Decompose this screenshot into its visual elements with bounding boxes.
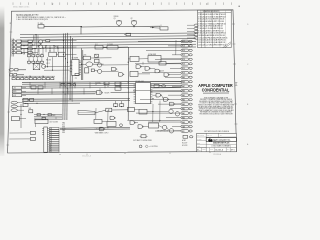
vertical wire: [107, 110, 109, 121]
wire band: [34, 113, 62, 115]
svg-text:8 344-0061-B BBU CUSTOM PLCC: 8 344-0061-B BBU CUSTOM PLCC U8: [198, 30, 223, 32]
wire: [144, 125, 149, 127]
title block top row: [206, 136, 236, 138]
gate U7B: [145, 67, 150, 71]
wire: [102, 120, 107, 122]
wire: [174, 130, 181, 132]
buffer gate U4C: [86, 62, 93, 67]
resistor R25: [67, 83, 71, 86]
IC U6: [130, 56, 139, 61]
transistor Q2: [132, 20, 137, 25]
transistor Q4: [39, 45, 43, 49]
polarity symbol: [145, 145, 148, 148]
net RAS connector: [148, 121, 181, 123]
resistor row R13-R22: [12, 78, 15, 80]
svg-text:* SEE SHEET 2 OF 2: * SEE SHEET 2 OF 2: [94, 133, 109, 135]
wire: [22, 98, 130, 101]
speck: [239, 6, 240, 7]
IC U26: [95, 59, 99, 63]
wire bus under resistor row: [12, 75, 55, 77]
delay line DL2: [107, 45, 118, 49]
IC U8: [130, 71, 138, 76]
resistor R34: [42, 117, 45, 119]
svg-text:D6: D6: [50, 140, 52, 142]
vertical wire: [175, 40, 177, 55]
svg-text:SCC: SCC: [62, 124, 65, 126]
sheet border frame: [8, 10, 237, 153]
svg-text:MACINTOSH PLUS: MACINTOSH PLUS: [213, 142, 230, 145]
wire: [152, 94, 156, 96]
apple computer inc logo bar: [206, 138, 236, 142]
gate U18B: [138, 125, 143, 129]
transistor Q3: [39, 40, 43, 44]
svg-text:R36 470: R36 470: [46, 59, 51, 61]
svg-text:-12V: -12V: [13, 95, 16, 97]
wire: [170, 73, 182, 75]
address bus wires: [22, 83, 182, 84]
svg-text:+5V: +5V: [13, 87, 16, 89]
gate U4A: [112, 67, 117, 71]
net RD4 connector: [172, 54, 181, 56]
svg-text:U13 74LS393: U13 74LS393: [49, 121, 58, 123]
IC U20A: [31, 86, 36, 89]
svg-text:REV: REV: [227, 149, 230, 151]
vertical wire: [82, 50, 84, 80]
svg-text:D3: D3: [50, 134, 52, 136]
wire: [166, 62, 181, 64]
net RA4 connector: [140, 99, 181, 101]
pin 3 D2: [47, 132, 49, 134]
svg-text:ENG: ENG: [197, 142, 200, 144]
wire: [136, 122, 139, 124]
IC U22B: [30, 98, 34, 101]
IC U11: [127, 107, 134, 111]
svg-text:7 341-0341-C 74LS161 BIN CNTR: 7 341-0341-C 74LS161 BIN CNTR U4: [198, 28, 223, 30]
IC U19: [149, 123, 159, 128]
svg-text:050-0601-A: 050-0601-A: [82, 155, 92, 158]
gate U7D: [164, 73, 169, 77]
gate U10B: [164, 98, 169, 102]
wire: [141, 66, 145, 68]
IC U3B: [58, 52, 65, 56]
svg-text:2. ALL DIODES ARE 1N914 OR EQ: 2. ALL DIODES ARE 1N914 OR EQUIV.: [16, 18, 48, 21]
pin 1 D0: [47, 127, 49, 129]
wire: [159, 85, 162, 87]
wire: [90, 57, 111, 59]
wire: [118, 46, 128, 48]
resistor R4: [46, 40, 50, 42]
svg-text:FSCM: FSCM: [202, 149, 205, 151]
svg-text:4 344-0062-B SWIM FLOPPY CTLR: 4 344-0062-B SWIM FLOPPY CTLR U9: [198, 21, 224, 23]
svg-text:Q1: Q1: [114, 18, 116, 20]
wire: [57, 46, 76, 48]
IC U2 GLU: [136, 83, 151, 104]
svg-text:SHT 1: SHT 1: [231, 149, 235, 151]
svg-text:M0510 MAIN LOGIC: M0510 MAIN LOGIC: [13, 6, 30, 9]
net RA2 connector: [170, 108, 181, 110]
IC U22A: [23, 98, 28, 101]
riser wires lower: [45, 46, 47, 53]
connector J4 header: [44, 127, 48, 152]
wire: [44, 69, 70, 71]
junction dot: [121, 106, 122, 107]
svg-text:DWG: DWG: [210, 149, 213, 151]
wire: [94, 69, 97, 71]
net RA6 connector: [133, 90, 181, 92]
IC U21A: [115, 82, 121, 85]
wire: [175, 103, 181, 105]
pin 5 D4: [47, 136, 49, 138]
vertical wire: [81, 48, 83, 80]
gate U7C: [155, 69, 160, 73]
wire: [162, 95, 164, 99]
wire: [150, 27, 160, 30]
vertical wire: [159, 101, 161, 122]
svg-text:C12 .1: C12 .1: [46, 63, 50, 65]
wire: [56, 53, 58, 55]
svg-text:EC 4077: EC 4077: [182, 142, 187, 144]
wire: [152, 87, 181, 89]
svg-text:RD4: RD4: [182, 55, 185, 57]
junction dot: [20, 114, 21, 115]
svg-text:IT IS NOT TO BE DISCLOSED, REP: IT IS NOT TO BE DISCLOSED, REPRODUCED IN: [200, 103, 233, 105]
transistor Q5: [98, 63, 102, 67]
IC U1 SWIM: [72, 60, 79, 76]
net RD3 connector: [155, 58, 181, 60]
wire: [121, 101, 123, 104]
riser wire: [11, 39, 13, 57]
ruler tick strip (film edge): [13, 2, 231, 5]
gate U18A: [130, 121, 135, 125]
pin 6 D5: [47, 138, 49, 140]
IC U25: [183, 135, 188, 138]
gate U24A: [110, 116, 114, 119]
vertical wire: [142, 62, 144, 65]
svg-text:RD6: RD6: [182, 46, 185, 48]
svg-text:THIS RESTRICTION DOES NOT LIMI: THIS RESTRICTION DOES NOT LIMIT THE RIGH…: [199, 113, 233, 115]
pin 4 D3: [47, 134, 49, 136]
svg-text:3.672 MHZ TO SOUND PWM: 3.672 MHZ TO SOUND PWM: [133, 140, 152, 142]
pin 10 A1: [47, 146, 49, 148]
wire: [81, 25, 160, 28]
wire: [9, 138, 30, 140]
net RA1 connector: [136, 112, 181, 114]
parts list table: [198, 10, 232, 47]
gate U4B: [119, 73, 124, 77]
wire: [22, 80, 182, 83]
net RA0 connector: [166, 117, 181, 119]
net RD6 connector: [168, 45, 181, 47]
svg-text:U28: U28: [29, 108, 32, 110]
gate U9A: [97, 91, 102, 95]
svg-text:DL1: DL1: [95, 44, 98, 46]
drawing title: [206, 143, 236, 145]
wire: [167, 127, 169, 130]
IC U22C: [23, 103, 28, 106]
wire: [159, 126, 163, 128]
net RA8 connector: [150, 81, 181, 83]
net RD5 connector: [146, 49, 181, 51]
svg-text:RD1: RD1: [182, 68, 185, 70]
resistor R33: [37, 114, 40, 116]
svg-text:Y1 16M: Y1 16M: [38, 23, 44, 25]
IC U28: [29, 110, 33, 113]
vertical wire: [95, 108, 97, 119]
zone flag marker: [235, 83, 237, 86]
svg-text:RD2: RD2: [182, 64, 185, 66]
svg-text:PWM: PWM: [52, 115, 55, 117]
svg-text:SYNERTEK MOS ROM IC: SYNERTEK MOS ROM IC: [203, 11, 219, 13]
wire: [20, 104, 22, 128]
svg-text:TOL .XX: TOL .XX: [207, 135, 212, 137]
wire: [81, 63, 86, 65]
diode CR1: [55, 46, 57, 48]
wire risers: [33, 35, 35, 41]
pin 8 D7: [47, 142, 49, 144]
bus drop wires 2: [37, 88, 39, 94]
svg-text:RD/WR: RD/WR: [105, 92, 110, 94]
bottom outside tick marks: [59, 153, 61, 155]
connector stub left: [9, 69, 14, 71]
net RD7 connector: [138, 40, 181, 42]
wire: [44, 25, 81, 27]
IC U23: [106, 108, 112, 112]
gate U10A: [156, 93, 161, 97]
transistor Q9: [162, 125, 166, 129]
wire: [10, 132, 31, 134]
wire: [34, 124, 36, 127]
resistor R27: [119, 104, 123, 107]
wire pair: [60, 127, 130, 130]
wire: [65, 53, 76, 55]
svg-text:D7: D7: [50, 142, 52, 144]
net RA7 connector: [172, 85, 181, 87]
svg-text:2N3906: 2N3906: [114, 16, 119, 18]
IC U12: [139, 109, 147, 114]
riser wires to bus: [23, 48, 25, 54]
wire: [43, 40, 46, 42]
crystal Y3: [141, 135, 146, 138]
junction dot: [115, 106, 116, 107]
bus drop wires: [29, 82, 31, 88]
wire: [22, 93, 96, 95]
vertical wire: [152, 104, 154, 122]
svg-text:RD0: RD0: [182, 73, 185, 75]
resistor R35: [48, 114, 51, 116]
IC U16: [107, 121, 116, 126]
net RA5 connector: [168, 94, 181, 96]
svg-text:RD5: RD5: [182, 50, 185, 52]
wire: [28, 99, 30, 101]
resistor R28: [154, 84, 159, 87]
wire: [102, 70, 119, 72]
svg-text:LS74: LS74: [83, 55, 86, 57]
IC U21B: [115, 87, 121, 90]
junction dots bus: [23, 45, 24, 46]
svg-text:3 341-0622-B 27C512 ROM HI 1: 3 341-0622-B 27C512 ROM HI 128K U6: [198, 19, 224, 21]
svg-text:D0: D0: [50, 128, 52, 130]
junction dots on buses: [63, 84, 64, 85]
IC U20B: [38, 86, 43, 89]
gate U17A: [100, 127, 105, 131]
transistor Q11: [73, 83, 76, 86]
capacitor C8: [189, 136, 193, 138]
junction dot: [21, 53, 22, 54]
delay line DL1: [95, 45, 103, 49]
svg-text:= LOW TRUE: = LOW TRUE: [149, 146, 157, 148]
svg-text:EC 4193: EC 4193: [182, 145, 187, 147]
zone tick marks right edge: [232, 23, 235, 25]
pin 9 A0: [47, 144, 49, 146]
IC U15: [94, 119, 102, 123]
capacitor C6: [104, 82, 109, 85]
wire: [147, 111, 168, 113]
ferrite bead L1: [160, 27, 168, 30]
resistor R32: [75, 73, 79, 75]
svg-text:R31: R31: [75, 78, 78, 80]
approvals column: [205, 133, 207, 151]
wire: [127, 119, 181, 121]
wire: [112, 109, 128, 111]
IC U3A: [49, 52, 57, 56]
wire: [102, 64, 129, 66]
svg-text:# 47 OHM X 8: # 47 OHM X 8: [95, 128, 104, 130]
title block bottom row: [197, 146, 237, 148]
page background: [0, 0, 250, 162]
IC U14B: [30, 137, 35, 140]
IC U14A: [30, 131, 35, 134]
net RD2 connector: [135, 63, 181, 65]
IC U4 latch: [83, 56, 90, 60]
connector J2 labelled pins: [12, 86, 21, 89]
wire: [138, 73, 150, 75]
svg-text:RD3: RD3: [182, 59, 185, 61]
svg-text:U1 SWIM: U1 SWIM: [72, 58, 79, 60]
connector shell: [11, 117, 19, 121]
table strike diagonal: [223, 42, 232, 48]
IC U13 buffer: [35, 119, 48, 123]
svg-text:D4: D4: [50, 136, 52, 138]
polarized connector pins: [11, 101, 17, 104]
pin 11 A2: [47, 148, 49, 150]
resistor R26: [113, 104, 117, 107]
wire: [161, 70, 165, 72]
wire: [134, 108, 139, 110]
transistor Q6: [98, 69, 102, 73]
svg-text:apple computer inc.: apple computer inc.: [213, 139, 231, 142]
svg-text:D1: D1: [50, 130, 52, 132]
no-connect symbol: [139, 145, 142, 148]
wire: [25, 102, 80, 104]
confidential stamp line 1: [198, 83, 232, 93]
wire: [44, 66, 70, 68]
wire: [80, 27, 82, 35]
svg-text:D5: D5: [50, 138, 52, 140]
resistor R23: [159, 62, 166, 65]
wire: [128, 58, 130, 60]
oscillator circle: [42, 64, 46, 68]
pull-up resistor pack RP2: [28, 40, 32, 42]
title block outline: [197, 133, 237, 151]
IC U5 PAL: [148, 55, 161, 62]
riser wire: [13, 39, 15, 57]
gate U7A: [136, 65, 141, 69]
wire: [151, 67, 156, 69]
svg-text:RD7: RD7: [182, 41, 185, 43]
top bus wires: [20, 33, 196, 35]
wire: [43, 46, 56, 48]
resistor R24: [61, 83, 65, 86]
zone tick marks left edge: [10, 31, 13, 33]
svg-text:D2: D2: [50, 132, 52, 134]
confidential stamp underline: [203, 92, 229, 94]
wire: [103, 46, 107, 48]
wire: [161, 57, 181, 59]
IC U27: [85, 68, 89, 73]
riser wire: [47, 57, 49, 66]
capacitor C7: [162, 85, 166, 87]
junction dot: [81, 64, 82, 65]
wire: [95, 110, 106, 113]
net RA3 connector: [158, 103, 181, 105]
wire: [94, 63, 104, 65]
transistor Q7: [169, 109, 173, 113]
gate U10C: [170, 102, 175, 106]
pin 2 D1: [47, 129, 49, 131]
pin 7 D6: [47, 140, 49, 142]
pin 12 A3: [47, 150, 49, 152]
svg-text:CHECK: CHECK: [197, 139, 202, 141]
net RD1 connector: [170, 67, 181, 69]
transistor Q10: [169, 129, 173, 133]
resistor R29: [91, 69, 94, 72]
capacitor bank C1-C5: [194, 24, 199, 26]
svg-text:L1: L1: [160, 25, 162, 27]
connector J1 pins: [12, 40, 16, 43]
svg-text:SND: SND: [62, 132, 65, 134]
resistor network R5-R12: [28, 55, 31, 57]
junction dot: [108, 109, 109, 110]
wire: [22, 91, 96, 93]
svg-text:Q2: Q2: [131, 18, 133, 20]
wire: [22, 100, 130, 103]
net RD0 connector: [142, 72, 181, 74]
bus ribbon taper: [78, 110, 95, 115]
crystal Y4: [95, 54, 99, 57]
net CAS connector: [172, 126, 181, 128]
vertical bus wires 2: [69, 36, 72, 100]
vertical bus wires: [62, 34, 65, 121]
left connector row B: [10, 74, 13, 76]
net RA9 connector: [165, 76, 181, 78]
vertical wire: [127, 47, 129, 120]
svg-text:14 341-0851-C 74HC04 HEX INVE: 14 341-0851-C 74HC04 HEX INVERT U14: [198, 44, 226, 46]
transistor Q8: [175, 112, 179, 116]
svg-text:CONFIDENTIAL: CONFIDENTIAL: [202, 87, 230, 92]
transistor Q1: [117, 20, 122, 25]
svg-text:33-100NS: 33-100NS: [107, 44, 113, 46]
no-connect circle: [120, 124, 123, 127]
riser wires resistor grid: [28, 58, 30, 61]
junction dot: [47, 66, 48, 67]
svg-text:C11: C11: [75, 76, 77, 78]
resistor R3: [126, 33, 131, 36]
wire: [115, 101, 117, 104]
crystal Y2: [33, 64, 40, 70]
net RW connector: [155, 130, 181, 132]
riser wire: [52, 57, 54, 70]
wire: [40, 44, 42, 45]
